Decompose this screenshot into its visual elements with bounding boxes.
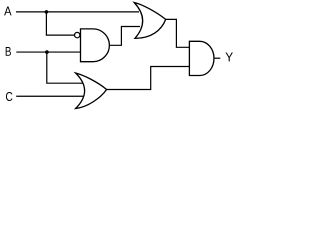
wire U1 output to OR gate U2 bbox=[109, 27, 140, 46]
node B junction bbox=[45, 50, 49, 54]
OR gate U2 bbox=[134, 3, 166, 39]
wire B branch to OR gate U3 bbox=[47, 52, 85, 83]
AND gate U4 bbox=[189, 41, 214, 75]
wire U2 output to AND gate U4 bbox=[166, 19, 190, 47]
input label B bbox=[6, 47, 11, 56]
input label C bbox=[6, 92, 12, 101]
wire A branch to inverted input bbox=[46, 12, 74, 35]
output label Y bbox=[226, 53, 233, 62]
wire Y output bbox=[214, 57, 220, 59]
wire A bbox=[16, 11, 139, 13]
wire C bbox=[16, 95, 85, 97]
node A junction bbox=[45, 10, 49, 14]
wire B bbox=[16, 51, 80, 53]
wire U3 output to AND gate U4 bbox=[107, 67, 190, 90]
AND gate U1 (inverted-A AND B) bbox=[81, 29, 110, 62]
OR gate U3 bbox=[76, 73, 107, 109]
inverter bubble on U1 top input bbox=[75, 32, 80, 37]
input label A bbox=[4, 7, 11, 16]
